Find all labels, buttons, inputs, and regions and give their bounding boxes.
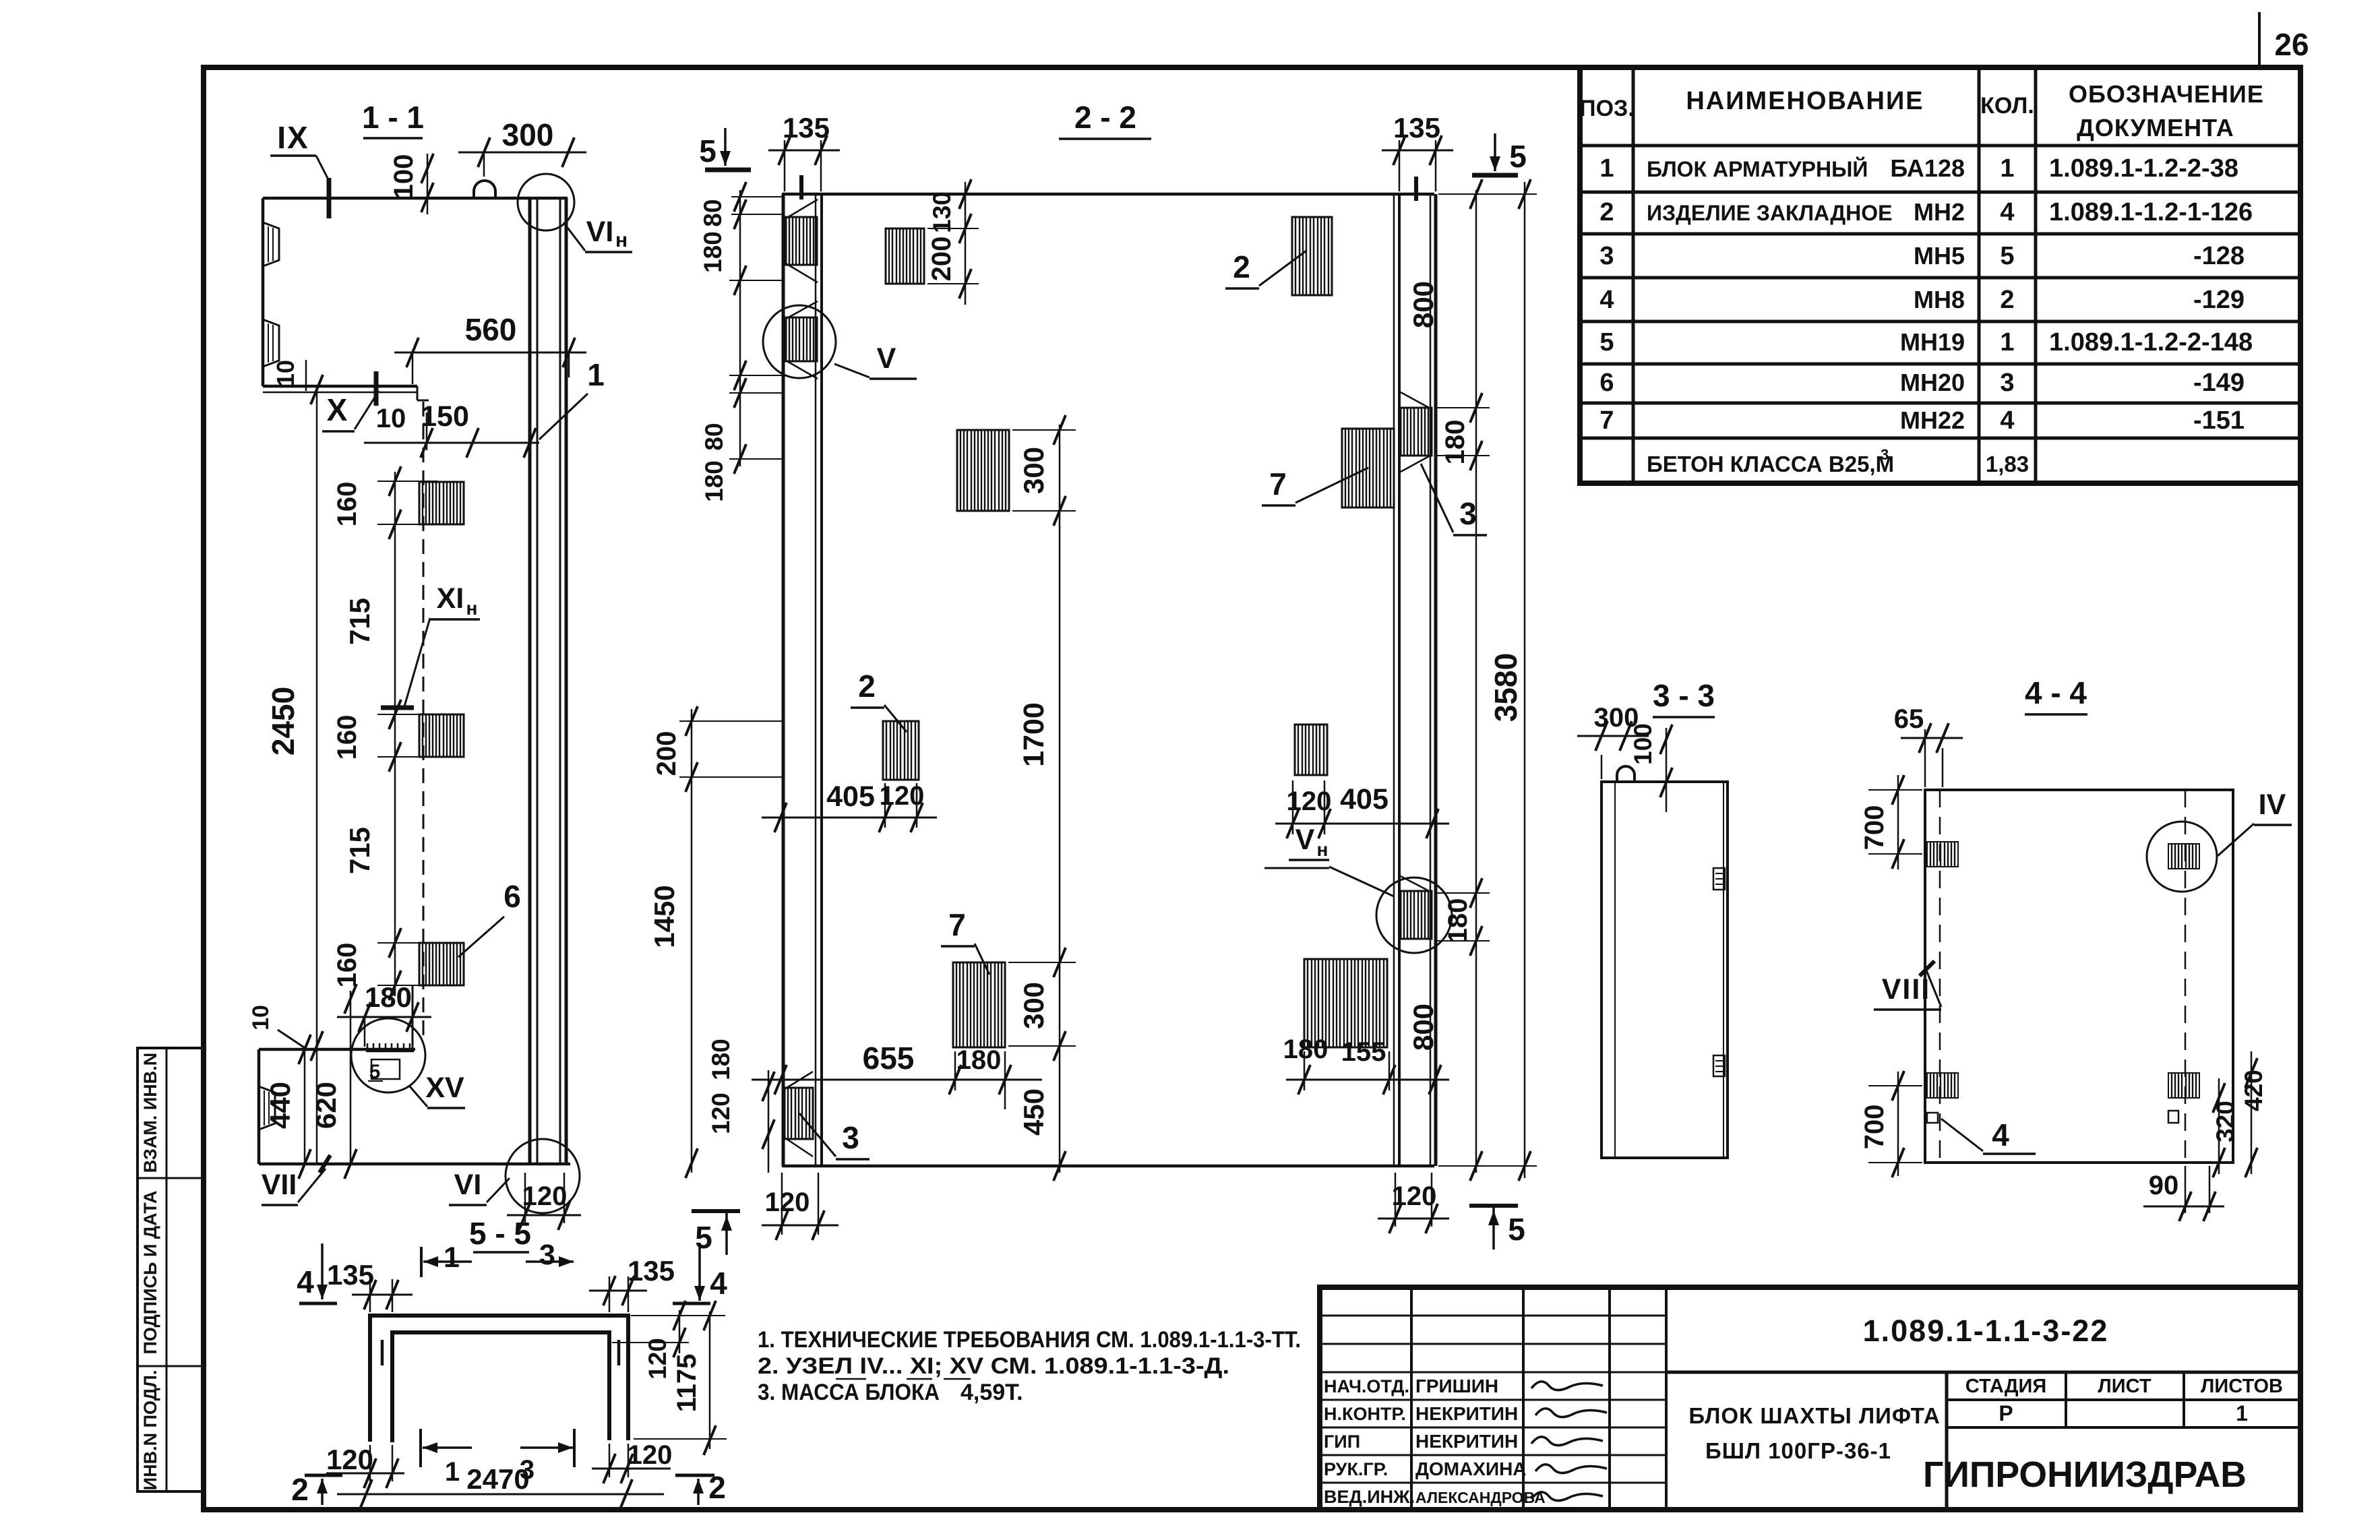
svg-text:НЕКРИТИН: НЕКРИТИН: [1415, 1403, 1518, 1424]
svg-text:4: 4: [1599, 286, 1614, 314]
VIn label: [563, 216, 632, 252]
svg-text:5: 5: [695, 1220, 712, 1255]
svg-text:н: н: [1317, 839, 1329, 860]
svg-text:МН19: МН19: [1900, 328, 1965, 356]
svg-text:н: н: [466, 598, 478, 619]
svg-text:3: 3: [1599, 242, 1614, 270]
spec table header: [1579, 80, 2264, 142]
svg-text:135: 135: [783, 112, 830, 144]
svg-text:10: 10: [272, 360, 299, 387]
svg-text:МН2: МН2: [1914, 198, 1965, 226]
dim 100 3-3: [1623, 723, 1699, 812]
span marks top: [421, 1239, 574, 1277]
svg-text:3: 3: [842, 1120, 859, 1155]
title block signatures text: [1324, 1376, 1546, 1507]
plate in circle Vn: [1401, 876, 1432, 939]
plate center 300: [957, 430, 1009, 511]
svg-text:БЕТОН КЛАССА В25,М: БЕТОН КЛАССА В25,М: [1647, 452, 1894, 476]
svg-text:1: 1: [444, 1241, 460, 1274]
VIII label: [1874, 961, 1941, 1010]
svg-text:100: 100: [1629, 723, 1657, 765]
svg-text:160: 160: [332, 943, 362, 988]
svg-text:3: 3: [2000, 369, 2014, 397]
svg-text:2: 2: [858, 669, 876, 704]
XV detail: [366, 1043, 414, 1083]
svg-text:180: 180: [1443, 898, 1473, 944]
svg-text:VI: VI: [586, 216, 614, 248]
svg-text:7: 7: [948, 907, 966, 942]
svg-text:ЛИСТОВ: ЛИСТОВ: [2201, 1376, 2283, 1397]
dim 120 left 5-5: [326, 1444, 404, 1488]
svg-text:3: 3: [1459, 496, 1477, 531]
svg-text:80: 80: [699, 199, 727, 226]
plate 3-3 lower: [1713, 1055, 1725, 1076]
dim 120 below left column: [762, 1173, 838, 1240]
svg-text:620: 620: [310, 1082, 342, 1129]
chain labels 1-1: [332, 482, 375, 988]
X label: [322, 371, 379, 431]
svg-text:150: 150: [421, 400, 469, 433]
dashed line left 4-4: [1939, 790, 1941, 1163]
section 2-2 bottom edge: [782, 1165, 1434, 1168]
lifting loop 3-3: [1617, 766, 1635, 782]
svg-text:200: 200: [652, 731, 681, 776]
section 3-3 label: [1653, 678, 1715, 717]
central chain 2-2: [1008, 415, 1076, 1181]
svg-text:440: 440: [264, 1082, 296, 1129]
plate MN left bottom: [785, 1072, 813, 1157]
svg-text:300: 300: [1018, 447, 1049, 494]
plate 3 right column top: [1401, 392, 1432, 472]
svg-text:БЛОК ШАХТЫ ЛИФТА: БЛОК ШАХТЫ ЛИФТА: [1688, 1403, 1940, 1428]
dim 405 120 left: [762, 780, 937, 832]
plate 2 mid right: [1295, 725, 1327, 775]
spec table rows: [1599, 154, 2253, 435]
leader 1 wall: [539, 357, 605, 439]
plate 180 155 bottom right: [1304, 959, 1387, 1047]
plate 2 top right: [1292, 217, 1332, 295]
svg-text:1.089.1-1.2-1-126: 1.089.1-1.2-1-126: [2049, 198, 2253, 226]
dashed line right 4-4: [2185, 790, 2187, 1163]
svg-text:320: 320: [2211, 1101, 2239, 1142]
title block doc number: [1863, 1314, 2109, 1348]
section mark 5 bottom left: [692, 1211, 740, 1255]
svg-text:450: 450: [1018, 1088, 1049, 1136]
svg-text:180: 180: [1440, 420, 1470, 465]
section 1-1 top-left block outline: [263, 198, 568, 400]
svg-text:1.089.1-1.2-2-38: 1.089.1-1.2-2-38: [2049, 154, 2238, 183]
dim 135 top left: [768, 112, 840, 191]
svg-text:200: 200: [927, 237, 956, 282]
chain 800 180 right: [1407, 179, 1490, 1181]
svg-text:ВЗАМ. ИНВ.N: ВЗАМ. ИНВ.N: [140, 1053, 160, 1173]
title block organization: [1923, 1454, 2247, 1495]
dim 1175: [631, 1301, 727, 1455]
section 1-1 bottom edge: [259, 1163, 570, 1166]
plate with 130 200 dims: [886, 228, 924, 284]
svg-text:1.089.1-1.2-2-148: 1.089.1-1.2-2-148: [2049, 328, 2253, 357]
svg-text:БА128: БА128: [1890, 154, 1965, 182]
svg-text:3: 3: [1881, 446, 1889, 463]
leader 3 right: [1421, 464, 1487, 535]
svg-text:ГИПРОНИИЗДРАВ: ГИПРОНИИЗДРАВ: [1923, 1454, 2247, 1495]
svg-text:6: 6: [504, 879, 521, 914]
svg-text:120: 120: [880, 781, 925, 811]
svg-text:БЛОК АРМАТУРНЫЙ: БЛОК АРМАТУРНЫЙ: [1647, 157, 1868, 181]
dim 300 top: [458, 117, 586, 177]
svg-text:V: V: [877, 342, 896, 375]
svg-text:4: 4: [2000, 198, 2014, 226]
svg-text:180: 180: [699, 231, 727, 273]
svg-text:1: 1: [445, 1457, 460, 1487]
svg-text:1450: 1450: [648, 885, 680, 948]
svg-text:420: 420: [2240, 1070, 2267, 1111]
svg-text:715: 715: [344, 598, 375, 645]
svg-text:БШЛ 100ГР-36-1: БШЛ 100ГР-36-1: [1705, 1438, 1891, 1463]
dim 180 bottom block: [337, 981, 431, 1047]
svg-text:180: 180: [1283, 1035, 1329, 1064]
circle XV: [351, 1018, 425, 1092]
svg-text:ИЗДЕЛИЕ ЗАКЛАДНОЕ: ИЗДЕЛИЕ ЗАКЛАДНОЕ: [1647, 201, 1892, 225]
svg-text:300: 300: [502, 117, 554, 152]
svg-text:405: 405: [826, 780, 875, 813]
spec table concrete row: [1647, 446, 2029, 476]
svg-text:МН5: МН5: [1914, 242, 1965, 270]
svg-text:ВЕД.ИНЖ.: ВЕД.ИНЖ.: [1324, 1487, 1415, 1507]
svg-text:Н.КОНТР.: Н.КОНТР.: [1324, 1404, 1406, 1424]
svg-text:1175: 1175: [672, 1354, 702, 1413]
tick on top edge right: [1414, 177, 1418, 201]
svg-text:НЕКРИТИН: НЕКРИТИН: [1415, 1431, 1518, 1452]
svg-text:VII: VII: [262, 1169, 297, 1201]
dim 120 flange 5-5: [612, 1301, 689, 1380]
svg-text:ПОДПИСЬ И ДАТА: ПОДПИСЬ И ДАТА: [140, 1190, 160, 1354]
dim 320 420 4-4: [2211, 1051, 2267, 1177]
svg-text:Р: Р: [1998, 1401, 2013, 1425]
svg-text:2470: 2470: [466, 1463, 529, 1495]
svg-text:1: 1: [1599, 154, 1614, 183]
section 1-1 bottom-left block: [259, 985, 415, 1164]
svg-text:4,59Т.: 4,59Т.: [960, 1380, 1023, 1405]
svg-text:н: н: [615, 229, 628, 251]
svg-text:РУК.ГР.: РУК.ГР.: [1324, 1459, 1388, 1479]
U channel outline: [370, 1316, 628, 1442]
note 2 uzly: [758, 1353, 1229, 1379]
dim 120 right 5-5: [592, 1440, 672, 1483]
svg-text:10: 10: [248, 1005, 274, 1030]
svg-text:XI: XI: [437, 582, 464, 615]
dim 10 rotated upper: [272, 360, 306, 391]
small mark 4-4 left: [1927, 1113, 1938, 1123]
section 5-5 label: [469, 1216, 531, 1252]
svg-text:НАЧ.ОТД.: НАЧ.ОТД.: [1324, 1376, 1409, 1396]
svg-text:5: 5: [1508, 1212, 1525, 1247]
dim 10 bottom leader: [248, 1005, 306, 1049]
page number 26 corner mark: [2259, 12, 2309, 67]
section mark 2 right: [675, 1470, 726, 1505]
dim 65 4-4: [1894, 704, 1963, 787]
svg-text:5: 5: [1599, 328, 1614, 357]
V label: [834, 342, 917, 379]
section mark 5 bottom right: [1469, 1206, 1525, 1250]
svg-text:V: V: [1295, 824, 1315, 856]
dim 655 180 bottom: [752, 1041, 1042, 1109]
VIn circle: [518, 174, 574, 230]
svg-text:4: 4: [2000, 406, 2014, 435]
svg-text:-128: -128: [2193, 242, 2245, 270]
dim 450 300 center labels extra: [0, 0, 1, 1]
svg-text:120: 120: [628, 1440, 673, 1470]
dim 90 4-4: [2143, 1166, 2224, 1221]
section 2-2 right column: [1394, 194, 1436, 1166]
svg-text:120: 120: [707, 1092, 735, 1134]
dim 10 150 step: [364, 400, 539, 458]
svg-text:XV: XV: [425, 1072, 464, 1104]
plate 2 mid left: [883, 721, 919, 780]
svg-text:7: 7: [1269, 466, 1287, 501]
dim 180 155 bottom right: [1283, 1035, 1449, 1095]
svg-text:3580: 3580: [1488, 653, 1523, 722]
left margin stamp boxes: [138, 1048, 204, 1491]
svg-text:5: 5: [2000, 242, 2014, 270]
svg-text:2: 2: [1233, 249, 1250, 284]
svg-text:1: 1: [2236, 1401, 2248, 1425]
svg-text:135: 135: [1393, 112, 1440, 144]
svg-text:1.089.1-1.1-3-22: 1.089.1-1.1-3-22: [1863, 1314, 2109, 1348]
svg-text:2: 2: [1599, 198, 1614, 226]
svg-text:ДОМАХИНА: ДОМАХИНА: [1415, 1458, 1527, 1479]
span marks bottom: [421, 1429, 574, 1487]
dim 120 wall bottom: [507, 1173, 581, 1230]
plate 4-4 left lower: [1927, 1073, 1958, 1098]
svg-text:3 - 3: 3 - 3: [1653, 678, 1715, 713]
section 1-1 wall lines: [530, 198, 566, 1164]
svg-text:VIII: VIII: [1882, 973, 1931, 1006]
svg-text:4 - 4: 4 - 4: [2025, 675, 2087, 710]
leader 4: [1941, 1117, 2036, 1154]
plate 4-4 right upper: [2168, 844, 2199, 869]
dim 120 below right column: [1378, 1173, 1449, 1233]
section mark 4 right: [673, 1245, 727, 1303]
chain dim line 1-1: [377, 466, 438, 1000]
svg-text:ГРИШИН: ГРИШИН: [1415, 1376, 1498, 1396]
svg-text:КОЛ.: КОЛ.: [1980, 93, 2034, 119]
svg-text:6: 6: [1599, 369, 1614, 397]
dim 120 405 right: [1275, 780, 1449, 838]
dim 300 3-3: [1577, 703, 1649, 779]
svg-text:IX: IX: [277, 120, 309, 155]
svg-text:5: 5: [1509, 139, 1527, 174]
svg-text:МН8: МН8: [1914, 286, 1965, 313]
rebar mark left: [381, 1340, 384, 1365]
plate 7 right: [1342, 429, 1394, 507]
section mark 5 top left: [699, 128, 751, 170]
svg-text:120: 120: [326, 1444, 373, 1475]
section mark 5 top right: [1472, 133, 1527, 175]
svg-text:VI: VI: [454, 1169, 482, 1201]
section 1-1 label: [362, 100, 424, 138]
dim 100 top: [389, 154, 433, 214]
svg-text:1: 1: [2000, 328, 2014, 357]
svg-text:120: 120: [522, 1181, 568, 1211]
svg-text:1: 1: [587, 357, 605, 392]
svg-text:560: 560: [465, 312, 517, 347]
svg-text:-151: -151: [2193, 406, 2245, 435]
chain 180-80 top left: [699, 182, 782, 502]
svg-text:160: 160: [332, 482, 362, 527]
svg-text:1700: 1700: [1018, 702, 1050, 767]
svg-text:2 - 2: 2 - 2: [1074, 100, 1136, 135]
chain 120-180 bottom left: [707, 1039, 774, 1173]
title block stage labels: [1965, 1376, 2283, 1425]
small mark 4-4 right: [2168, 1111, 2178, 1123]
section 4-4 body: [1925, 790, 2233, 1163]
svg-text:5 - 5: 5 - 5: [469, 1216, 531, 1251]
section 2-2 top edge: [782, 193, 1434, 196]
plate MN left top: [786, 199, 818, 282]
embedded plate 6a: [419, 482, 464, 524]
svg-text:120: 120: [1392, 1181, 1437, 1211]
svg-text:26: 26: [2274, 27, 2309, 62]
section mark 4 left: [297, 1243, 337, 1303]
vertical extension 2450: [266, 375, 323, 1164]
svg-text:120: 120: [644, 1338, 671, 1380]
svg-text:2. УЗЕЛ IV... XI; XV СМ. 1.08: 2. УЗЕЛ IV... XI; XV СМ. 1.089.1-1.1-3-Д…: [758, 1353, 1229, 1379]
svg-text:120: 120: [765, 1188, 810, 1217]
svg-text:160: 160: [332, 715, 362, 760]
svg-text:155: 155: [1341, 1037, 1386, 1067]
svg-text:1,83: 1,83: [1986, 452, 2029, 476]
embedded plate 6c: [419, 943, 464, 985]
svg-text:90: 90: [2149, 1171, 2179, 1200]
svg-text:ПОЗ.: ПОЗ.: [1579, 96, 1635, 121]
svg-text:2: 2: [291, 1472, 309, 1507]
note 1 technical requirements: [758, 1327, 1301, 1353]
leader 2 top: [1225, 249, 1306, 288]
svg-text:МН20: МН20: [1900, 369, 1965, 396]
dim 440: [264, 1035, 311, 1179]
svg-text:130: 130: [928, 191, 956, 233]
circle V plate: [786, 301, 818, 379]
svg-text:300: 300: [1018, 982, 1049, 1029]
svg-text:180: 180: [956, 1045, 1002, 1075]
svg-text:МН22: МН22: [1900, 406, 1965, 434]
svg-text:1: 1: [2000, 154, 2014, 183]
svg-text:4: 4: [1992, 1117, 2009, 1152]
svg-text:ИНВ.N ПОДЛ.: ИНВ.N ПОДЛ.: [140, 1370, 160, 1491]
tick on top edge left: [799, 175, 803, 199]
section 1-1 hidden edge dashed: [423, 402, 425, 1038]
title block grid: [1320, 1287, 2300, 1510]
IV label: [2218, 789, 2292, 856]
plate 4-4 left upper: [1927, 842, 1958, 867]
circle VI bottom: [506, 1139, 580, 1213]
plate 7 bottom left: [953, 962, 1005, 1047]
svg-text:-129: -129: [2193, 286, 2245, 314]
svg-text:-149: -149: [2193, 369, 2245, 397]
dim 135 top right: [1382, 112, 1453, 191]
svg-text:800: 800: [1407, 281, 1439, 328]
dim 130 200: [927, 179, 979, 305]
leader 6: [458, 879, 521, 957]
svg-text:405: 405: [1340, 783, 1389, 815]
svg-text:5: 5: [369, 1061, 381, 1083]
svg-text:2450: 2450: [266, 687, 301, 756]
svg-text:700: 700: [1860, 805, 1889, 851]
lifting loop 1-1: [474, 181, 495, 198]
section 4-4 label: [2025, 675, 2087, 714]
dim 700 lower 4-4: [1860, 1071, 1922, 1177]
dim 135 left 5-5: [327, 1259, 413, 1312]
svg-text:65: 65: [1894, 704, 1924, 734]
keyway notch bottom block: [259, 1086, 275, 1130]
IX label: [270, 120, 329, 218]
svg-text:1. ТЕХНИЧЕСКИЕ ТРЕБОВАНИЯ СМ.: 1. ТЕХНИЧЕСКИЕ ТРЕБОВАНИЯ СМ. 1.089.1-1.…: [758, 1327, 1301, 1353]
XV label: [410, 1072, 465, 1108]
section 2-2 label: [1059, 100, 1151, 139]
svg-text:5: 5: [699, 133, 716, 168]
title block name: [1688, 1403, 1940, 1463]
Vn label: [1264, 824, 1394, 896]
section 2-2 left column: [783, 194, 822, 1166]
dim 560: [394, 312, 586, 384]
leader 2 mid: [851, 669, 907, 732]
rebar mark right: [617, 1340, 621, 1365]
svg-text:80: 80: [700, 423, 728, 450]
svg-text:4: 4: [297, 1264, 314, 1299]
svg-text:ДОКУМЕНТА: ДОКУМЕНТА: [2077, 114, 2234, 142]
svg-text:АЛЕКСАНДРОВА: АЛЕКСАНДРОВА: [1415, 1489, 1546, 1506]
note 3 massa bloka: [758, 1380, 1023, 1405]
VII label: [262, 1155, 330, 1205]
svg-text:180: 180: [365, 981, 412, 1013]
keyway notch lower: [263, 319, 279, 367]
circle IV: [2147, 822, 2217, 892]
chain 200-1450 left: [648, 706, 783, 1178]
svg-text:3. МАССА БЛОКА: 3. МАССА БЛОКА: [758, 1380, 940, 1405]
section 3-3 body: [1601, 782, 1728, 1158]
dim 2470: [337, 1463, 664, 1509]
leader 7 top: [1262, 466, 1368, 505]
dim 3580: [1438, 179, 1537, 1181]
leader 7 bottom: [941, 907, 989, 975]
svg-text:1 - 1: 1 - 1: [362, 100, 424, 135]
dim 620: [310, 984, 357, 1179]
svg-text:ГИП: ГИП: [1324, 1431, 1360, 1452]
svg-text:X: X: [327, 392, 348, 427]
embedded plate 6b: [419, 714, 464, 757]
svg-text:2: 2: [2000, 286, 2014, 314]
keyway notch upper: [263, 222, 279, 266]
svg-text:135: 135: [327, 1259, 374, 1291]
svg-text:180: 180: [700, 460, 728, 502]
svg-text:СТАДИЯ: СТАДИЯ: [1965, 1376, 2046, 1397]
svg-text:ОБОЗНАЧЕНИЕ: ОБОЗНАЧЕНИЕ: [2069, 80, 2264, 108]
svg-text:800: 800: [1407, 1004, 1439, 1051]
svg-text:120: 120: [1287, 787, 1332, 816]
circle V: [763, 305, 836, 378]
svg-text:135: 135: [628, 1255, 675, 1287]
svg-text:7: 7: [1599, 406, 1614, 435]
section mark 2 left: [291, 1472, 342, 1507]
svg-text:715: 715: [344, 827, 375, 874]
svg-text:ЛИСТ: ЛИСТ: [2098, 1376, 2151, 1397]
svg-text:3: 3: [539, 1239, 555, 1271]
VI label: [449, 1169, 510, 1205]
svg-text:180: 180: [707, 1039, 735, 1080]
leader 3 bottom left: [799, 1113, 869, 1159]
plate 3-3 upper: [1713, 868, 1725, 890]
